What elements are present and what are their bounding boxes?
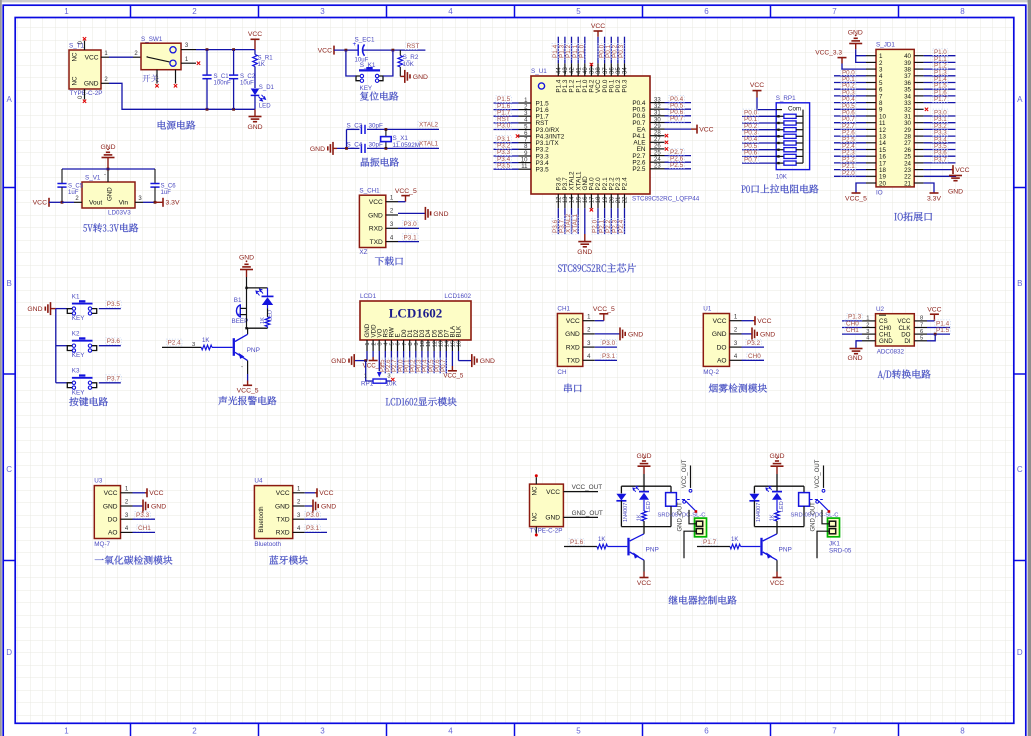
- svg-text:DO: DO: [108, 517, 118, 524]
- svg-text:STC89C52RC_LQFP44: STC89C52RC_LQFP44: [632, 196, 700, 203]
- svg-text:VCC: VCC: [104, 490, 118, 497]
- margin section ticks and labels: [130, 5, 132, 17]
- svg-text:P2.4: P2.4: [168, 340, 182, 347]
- svg-text:Bluetooth: Bluetooth: [258, 506, 265, 533]
- relay output connector: [695, 518, 707, 537]
- relay LED: [643, 486, 645, 491]
- module CH1 (CH): [557, 314, 582, 367]
- svg-text:P3.0: P3.0: [497, 123, 511, 130]
- caption AD convert: [878, 371, 883, 378]
- wire T1 GND to bottom rail: [101, 82, 109, 84]
- svg-text:PNP: PNP: [779, 547, 792, 554]
- svg-text:RXD: RXD: [276, 530, 290, 537]
- resistor S_R2 10K: [399, 50, 401, 55]
- svg-text:6: 6: [704, 727, 709, 736]
- svg-text:7: 7: [402, 342, 408, 345]
- svg-text:21: 21: [904, 180, 911, 187]
- svg-text:P1.7: P1.7: [934, 96, 947, 103]
- LCD pin1 GND wire: [366, 351, 368, 361]
- svg-text:P1.6: P1.6: [570, 539, 584, 546]
- svg-text:A: A: [1017, 95, 1023, 104]
- svg-text:CH1: CH1: [138, 525, 151, 532]
- svg-text:5: 5: [390, 342, 396, 345]
- svg-text:VCC: VCC: [85, 55, 99, 62]
- svg-text:11: 11: [426, 341, 432, 347]
- caption 5V to 3.3V: [83, 224, 86, 231]
- capacitor S_C1 100nF: [206, 48, 209, 51]
- svg-text:GND: GND: [847, 355, 862, 362]
- svg-text:AO: AO: [108, 530, 118, 537]
- svg-text:P3.5: P3.5: [536, 167, 550, 174]
- wire to key K2: [56, 345, 67, 347]
- GND port download: [398, 212, 425, 214]
- GND_OUT wire: [563, 516, 598, 518]
- svg-text:P1.7: P1.7: [703, 539, 717, 546]
- svg-text:S_D1: S_D1: [259, 85, 275, 91]
- capacitor S_C6 1uF: [154, 169, 156, 184]
- svg-text:P3.1: P3.1: [404, 234, 418, 241]
- U1 VCC port: [742, 320, 754, 322]
- svg-text:S_U1: S_U1: [531, 68, 547, 75]
- svg-text:P3.7: P3.7: [107, 375, 121, 382]
- svg-text:KEY: KEY: [72, 315, 85, 322]
- svg-text:VCC_OUT: VCC_OUT: [572, 484, 603, 491]
- svg-text:39: 39: [590, 67, 596, 74]
- svg-text:VCC_5: VCC_5: [443, 373, 464, 380]
- svg-text:S_C3: S_C3: [347, 122, 363, 129]
- svg-text:7: 7: [832, 7, 837, 16]
- svg-text:P2.4: P2.4: [622, 177, 629, 191]
- GND power port: [254, 109, 256, 116]
- svg-text:1: 1: [64, 727, 69, 736]
- svg-text:KEY: KEY: [360, 85, 373, 92]
- svg-text:RP1: RP1: [361, 381, 374, 388]
- svg-text:GND: GND: [275, 503, 290, 510]
- svg-text:LED: LED: [779, 501, 785, 512]
- svg-text:1: 1: [364, 374, 367, 380]
- svg-text:38: 38: [596, 67, 602, 74]
- caption fuweidianlu: [360, 92, 369, 101]
- resistor S_R1 1K: [254, 50, 256, 55]
- CH1 TXD P3.1: [595, 359, 617, 361]
- svg-text:12: 12: [432, 341, 438, 347]
- svg-text:VCC: VCC: [757, 318, 771, 325]
- capacitor S_C3 30pF: [360, 125, 362, 134]
- svg-text:TYPE-C-2P: TYPE-C-2P: [530, 528, 563, 535]
- LCD pin2 VCC_5: [372, 351, 374, 357]
- svg-text:P1.5: P1.5: [936, 327, 950, 334]
- svg-text:40: 40: [583, 67, 589, 74]
- svg-text:42: 42: [570, 67, 576, 74]
- svg-text:MQ-2: MQ-2: [703, 369, 719, 376]
- LCD pin15 BLA VCC_5: [451, 351, 453, 366]
- svg-text:8: 8: [960, 7, 965, 16]
- svg-text:3.3V: 3.3V: [927, 196, 941, 203]
- svg-text:VCC_5: VCC_5: [237, 387, 259, 394]
- svg-text:7: 7: [832, 727, 837, 736]
- svg-text:TXD: TXD: [277, 517, 290, 524]
- svg-text:LED: LED: [646, 501, 652, 512]
- svg-text:A: A: [7, 95, 13, 104]
- svg-text:GND: GND: [247, 124, 262, 131]
- LED S_D1: [251, 89, 260, 96]
- svg-text:19: 19: [603, 196, 609, 203]
- svg-text:CH1: CH1: [846, 327, 859, 334]
- svg-text:K1: K1: [72, 293, 80, 300]
- wire T1 VCC to SW1: [101, 56, 109, 58]
- svg-text:P2.5: P2.5: [670, 162, 684, 169]
- U2 CH1 wire: [842, 333, 862, 335]
- svg-text:GND_OUT: GND_OUT: [811, 502, 817, 532]
- CH1 RXD P3.0: [595, 346, 617, 348]
- LCD1 LCD1602 body: [360, 301, 471, 340]
- svg-text:VCC: VCC: [955, 167, 969, 174]
- svg-text:GND: GND: [103, 503, 118, 510]
- capacitor S_C5 1uF: [61, 169, 63, 184]
- top rail wire: [62, 168, 155, 170]
- relay emitter VCC: [776, 560, 778, 571]
- caption STC89C52RC main chip: [558, 264, 562, 272]
- svg-text:DI: DI: [904, 338, 910, 345]
- svg-text:GND: GND: [565, 331, 580, 338]
- svg-text:GND: GND: [769, 453, 784, 460]
- svg-text:10K: 10K: [386, 381, 398, 388]
- wire to key K1: [56, 308, 67, 310]
- svg-text:U4: U4: [254, 477, 263, 484]
- svg-text:17: 17: [590, 196, 596, 203]
- svg-text:P0.3: P0.3: [622, 79, 629, 93]
- U4 TXD P3.0: [305, 518, 327, 520]
- svg-text:GND: GND: [84, 81, 99, 88]
- U2 CH0 wire: [842, 327, 862, 329]
- caption chuankou: [564, 384, 572, 393]
- caption jingzhendianlu: [361, 158, 369, 167]
- potentiometer RP1 10K: [366, 361, 373, 381]
- relay output connector: [828, 518, 840, 537]
- alarm base wire with 1K resistor: [166, 339, 182, 346]
- svg-text:Vin: Vin: [119, 200, 129, 207]
- svg-text:GND: GND: [107, 187, 114, 201]
- svg-text:LED: LED: [268, 310, 274, 321]
- svg-text:S_SW1: S_SW1: [141, 36, 163, 43]
- svg-text:LCD1602: LCD1602: [444, 293, 471, 300]
- svg-text:NC: NC: [532, 486, 539, 495]
- net label RST: [405, 43, 417, 50]
- svg-text:37: 37: [603, 67, 609, 74]
- diode 1N4007: [620, 486, 622, 493]
- caption P0 pull-up: [741, 185, 745, 192]
- svg-text:S_V1: S_V1: [85, 175, 101, 182]
- svg-text:TXD: TXD: [370, 239, 383, 246]
- module U1 (MQ-2): [703, 314, 729, 367]
- caption bluetooth: [269, 556, 278, 565]
- svg-text:20: 20: [610, 196, 616, 203]
- svg-text:9: 9: [414, 342, 420, 345]
- svg-text:CH1: CH1: [557, 305, 570, 312]
- svg-text:3: 3: [320, 7, 325, 16]
- reset top wire: [334, 49, 358, 51]
- svg-text:P2.4: P2.4: [618, 219, 625, 233]
- svg-text:P0.7: P0.7: [440, 359, 447, 372]
- svg-text:P0.3: P0.3: [618, 44, 625, 58]
- svg-text:GND: GND: [636, 453, 651, 460]
- caption CO detect: [95, 559, 104, 560]
- svg-text:GND: GND: [628, 331, 643, 338]
- svg-text:GND: GND: [760, 331, 775, 338]
- svg-text:K3: K3: [72, 368, 80, 375]
- svg-text:VCC: VCC: [369, 199, 383, 206]
- capacitor S_C4 30pF: [360, 144, 362, 153]
- svg-text:P3.5: P3.5: [107, 301, 121, 308]
- regulator S_V1 LD03V3: [82, 182, 135, 208]
- svg-text:XTAL1: XTAL1: [419, 141, 439, 148]
- relay emitter VCC: [643, 560, 645, 571]
- svg-text:20: 20: [879, 180, 886, 187]
- svg-text:22: 22: [623, 196, 629, 203]
- svg-text:U3: U3: [94, 477, 103, 484]
- svg-text:11.0592M: 11.0592M: [393, 142, 421, 149]
- button circuit GND port: [51, 308, 56, 310]
- alarm resistor 1K vertical: [267, 309, 269, 318]
- RP1 resistors and wires: [742, 115, 776, 117]
- wire from key K3 to net P3.7: [99, 382, 121, 384]
- svg-text:P3.3: P3.3: [136, 512, 150, 519]
- svg-text:10K: 10K: [403, 61, 415, 68]
- VCC_OUT wire: [563, 491, 598, 493]
- relay coil: [670, 486, 672, 492]
- U2 CS wire P1.3: [842, 320, 862, 322]
- svg-text:12: 12: [557, 196, 563, 203]
- svg-text:P3.6: P3.6: [107, 338, 121, 345]
- svg-text:4: 4: [448, 727, 453, 736]
- svg-text:GND: GND: [577, 249, 592, 256]
- JD1 pin22 to GND: [924, 175, 956, 178]
- alarm GND port: [246, 260, 248, 262]
- svg-text:P3.7: P3.7: [934, 156, 947, 163]
- svg-text:DO: DO: [717, 344, 727, 351]
- svg-text:30pF: 30pF: [369, 122, 384, 129]
- svg-text:1K: 1K: [258, 62, 265, 68]
- svg-text:NC: NC: [532, 512, 539, 521]
- JD1 pin1-2 to GND top: [856, 56, 866, 63]
- svg-text:P2.5: P2.5: [632, 166, 646, 173]
- caption anjiandianlu: [69, 397, 78, 406]
- svg-text:GND: GND: [239, 255, 254, 262]
- svg-text:RXD: RXD: [369, 226, 383, 233]
- relay top rail: [621, 485, 671, 487]
- caption shengguangbaojing: [218, 396, 227, 405]
- svg-text:Bluetooth: Bluetooth: [254, 541, 281, 548]
- caption yanwujiance: [709, 384, 718, 393]
- svg-text:GND: GND: [310, 146, 325, 153]
- svg-text:VCC: VCC: [637, 580, 651, 587]
- svg-text:MQ-7: MQ-7: [94, 541, 110, 548]
- svg-text:XZ: XZ: [359, 249, 367, 256]
- GND port reset: [400, 75, 405, 77]
- svg-text:GND: GND: [368, 212, 383, 219]
- svg-text:RXD: RXD: [566, 344, 580, 351]
- svg-text:P3.0: P3.0: [306, 512, 320, 519]
- svg-text:GND: GND: [27, 306, 42, 313]
- svg-text:VCC_OUT: VCC_OUT: [682, 459, 688, 488]
- relay PNP transistor (P1.6): [627, 538, 629, 556]
- svg-text:GND: GND: [948, 189, 963, 196]
- svg-text:15: 15: [576, 196, 582, 203]
- svg-text:5: 5: [576, 7, 581, 16]
- MCU S_U1 STC89C52RC_LQFP44 body: [531, 76, 650, 194]
- module U4 (Bluetooth): [254, 486, 292, 539]
- svg-text:CH: CH: [557, 369, 567, 376]
- svg-text:100nF: 100nF: [214, 81, 231, 87]
- wire from key K2 to net P3.6: [99, 345, 121, 347]
- svg-text:JK1: JK1: [829, 541, 840, 548]
- svg-text:1: 1: [365, 342, 371, 345]
- svg-text:S_C1: S_C1: [214, 74, 230, 80]
- svg-text:IO: IO: [876, 190, 883, 197]
- relay base wire P1.6: [569, 539, 585, 546]
- svg-text:VCC: VCC: [591, 23, 605, 30]
- relay top rail: [754, 485, 804, 487]
- svg-text:-: -: [104, 172, 106, 178]
- svg-text:10uF: 10uF: [240, 81, 254, 87]
- svg-text:VCC_3.3: VCC_3.3: [815, 50, 842, 57]
- svg-text:2: 2: [371, 342, 377, 345]
- relay LED: [776, 486, 778, 491]
- svg-text:6: 6: [396, 342, 402, 345]
- S_SW1 pins to rail: [181, 49, 196, 51]
- svg-text:GND_OUT: GND_OUT: [678, 502, 684, 532]
- svg-text:4: 4: [448, 7, 453, 16]
- svg-text:BEEP: BEEP: [232, 318, 249, 325]
- connector S_T1 (TYPE-C-2P): [69, 50, 101, 89]
- svg-text:GND: GND: [848, 30, 863, 37]
- S_SW1 bottom stubs: [156, 70, 158, 84]
- svg-text:GND: GND: [712, 331, 727, 338]
- svg-text:D: D: [6, 648, 12, 657]
- JD1 pin20 to VCC_5: [856, 183, 866, 193]
- svg-text:VCC: VCC: [248, 31, 262, 38]
- svg-text:GND: GND: [151, 503, 166, 510]
- svg-text:VCC: VCC: [546, 489, 560, 496]
- relay base wire P1.7: [702, 539, 718, 546]
- connector TYPE-C-2P (relay power out): [530, 484, 564, 526]
- svg-text:D: D: [1017, 648, 1023, 657]
- svg-text:C: C: [1017, 465, 1023, 474]
- svg-text:6: 6: [704, 7, 709, 16]
- svg-text:KEY: KEY: [72, 389, 85, 396]
- polarized capacitor S_EC1 10uF: [357, 44, 359, 55]
- LCD pin16 BLK GND: [458, 351, 460, 361]
- caption dianyuandianlu: [158, 121, 166, 130]
- svg-text:GND_OUT: GND_OUT: [572, 510, 603, 517]
- resistor network S_RP1: [776, 103, 809, 170]
- alarm top wires: [246, 277, 248, 288]
- button bus wire: [55, 309, 57, 383]
- diode 1N4007: [753, 486, 755, 493]
- svg-text:GND: GND: [331, 358, 346, 365]
- JD1 pin21 to 3.3V: [924, 183, 934, 193]
- wire from key K1 to net P3.5: [99, 308, 121, 310]
- svg-text:LD03V3: LD03V3: [108, 210, 131, 217]
- relay GND port (P1.7): [776, 457, 778, 459]
- alarm PNP transistor: [247, 328, 249, 334]
- svg-text:TXD: TXD: [567, 358, 580, 365]
- svg-text:16: 16: [583, 196, 589, 203]
- relay coil: [803, 486, 805, 492]
- svg-text:S_EC1: S_EC1: [355, 36, 375, 43]
- svg-text:3: 3: [387, 374, 390, 380]
- crystal top wire XTAL2: [347, 128, 360, 130]
- left vertical wire: [346, 129, 348, 148]
- svg-text:S_CH1: S_CH1: [359, 188, 380, 195]
- svg-text:NC: NC: [72, 76, 79, 85]
- svg-text:35: 35: [616, 67, 622, 74]
- svg-text:1N4007: 1N4007: [623, 503, 629, 522]
- U3 GND port: [133, 505, 144, 507]
- svg-text:AO: AO: [717, 358, 727, 365]
- svg-text:GND: GND: [321, 503, 336, 510]
- S_T1 no-connect stubs: [84, 41, 86, 51]
- svg-text:S_C2: S_C2: [240, 74, 256, 80]
- svg-text:-: -: [241, 365, 243, 371]
- relay 1K resistor under LED: [776, 500, 778, 511]
- svg-text:10K: 10K: [776, 174, 788, 181]
- svg-text:P3.5: P3.5: [497, 162, 511, 169]
- svg-text:16: 16: [457, 341, 463, 347]
- LED alarm: [267, 288, 269, 296]
- crystal S_X1 11.0592M: [385, 129, 387, 136]
- svg-text:S_RP1: S_RP1: [776, 95, 796, 102]
- svg-text:13: 13: [563, 196, 569, 203]
- RXD wire P3.0: [398, 227, 419, 229]
- svg-text:Vout: Vout: [89, 200, 102, 207]
- relay bottom rail: [754, 526, 804, 528]
- U3 AO CH1: [133, 531, 156, 533]
- U2 DO wire P1.5: [927, 333, 950, 335]
- svg-text:B1: B1: [234, 297, 242, 304]
- U2 GND port: [856, 341, 862, 349]
- svg-text:VCC: VCC: [927, 306, 941, 313]
- svg-text:P2.0: P2.0: [842, 170, 855, 177]
- U3 DO P3.3: [133, 518, 156, 520]
- svg-text:8: 8: [408, 342, 414, 345]
- caption IO expansion: [894, 213, 896, 220]
- svg-text:P0.7: P0.7: [744, 156, 758, 163]
- svg-text:1N4007: 1N4007: [756, 503, 762, 522]
- svg-text:XTAL1: XTAL1: [572, 213, 579, 233]
- svg-text:43: 43: [563, 67, 569, 74]
- svg-text:VCC: VCC: [149, 490, 163, 497]
- svg-text:34: 34: [623, 67, 629, 74]
- V1 top GND net: [107, 148, 109, 150]
- svg-text:TYPE-C-2P: TYPE-C-2P: [70, 90, 103, 97]
- relay PNP transistor (P1.7): [760, 538, 762, 556]
- svg-text:41: 41: [576, 67, 582, 74]
- wire to key K3: [56, 382, 67, 384]
- U4 RXD P3.1: [305, 531, 327, 533]
- svg-text:15: 15: [451, 341, 457, 347]
- svg-text:VCC: VCC: [699, 127, 713, 134]
- svg-text:SRD-05: SRD-05: [829, 548, 852, 555]
- svg-text:13: 13: [438, 341, 444, 347]
- JD1 pin23 to VCC: [924, 169, 951, 171]
- svg-text:B: B: [7, 279, 12, 288]
- svg-text:1uF: 1uF: [161, 190, 172, 196]
- switch S_SW1: [141, 43, 181, 69]
- svg-text:S_C4: S_C4: [347, 141, 363, 148]
- svg-text:1K: 1K: [202, 338, 209, 344]
- wire Vin to 3.3V: [135, 201, 143, 203]
